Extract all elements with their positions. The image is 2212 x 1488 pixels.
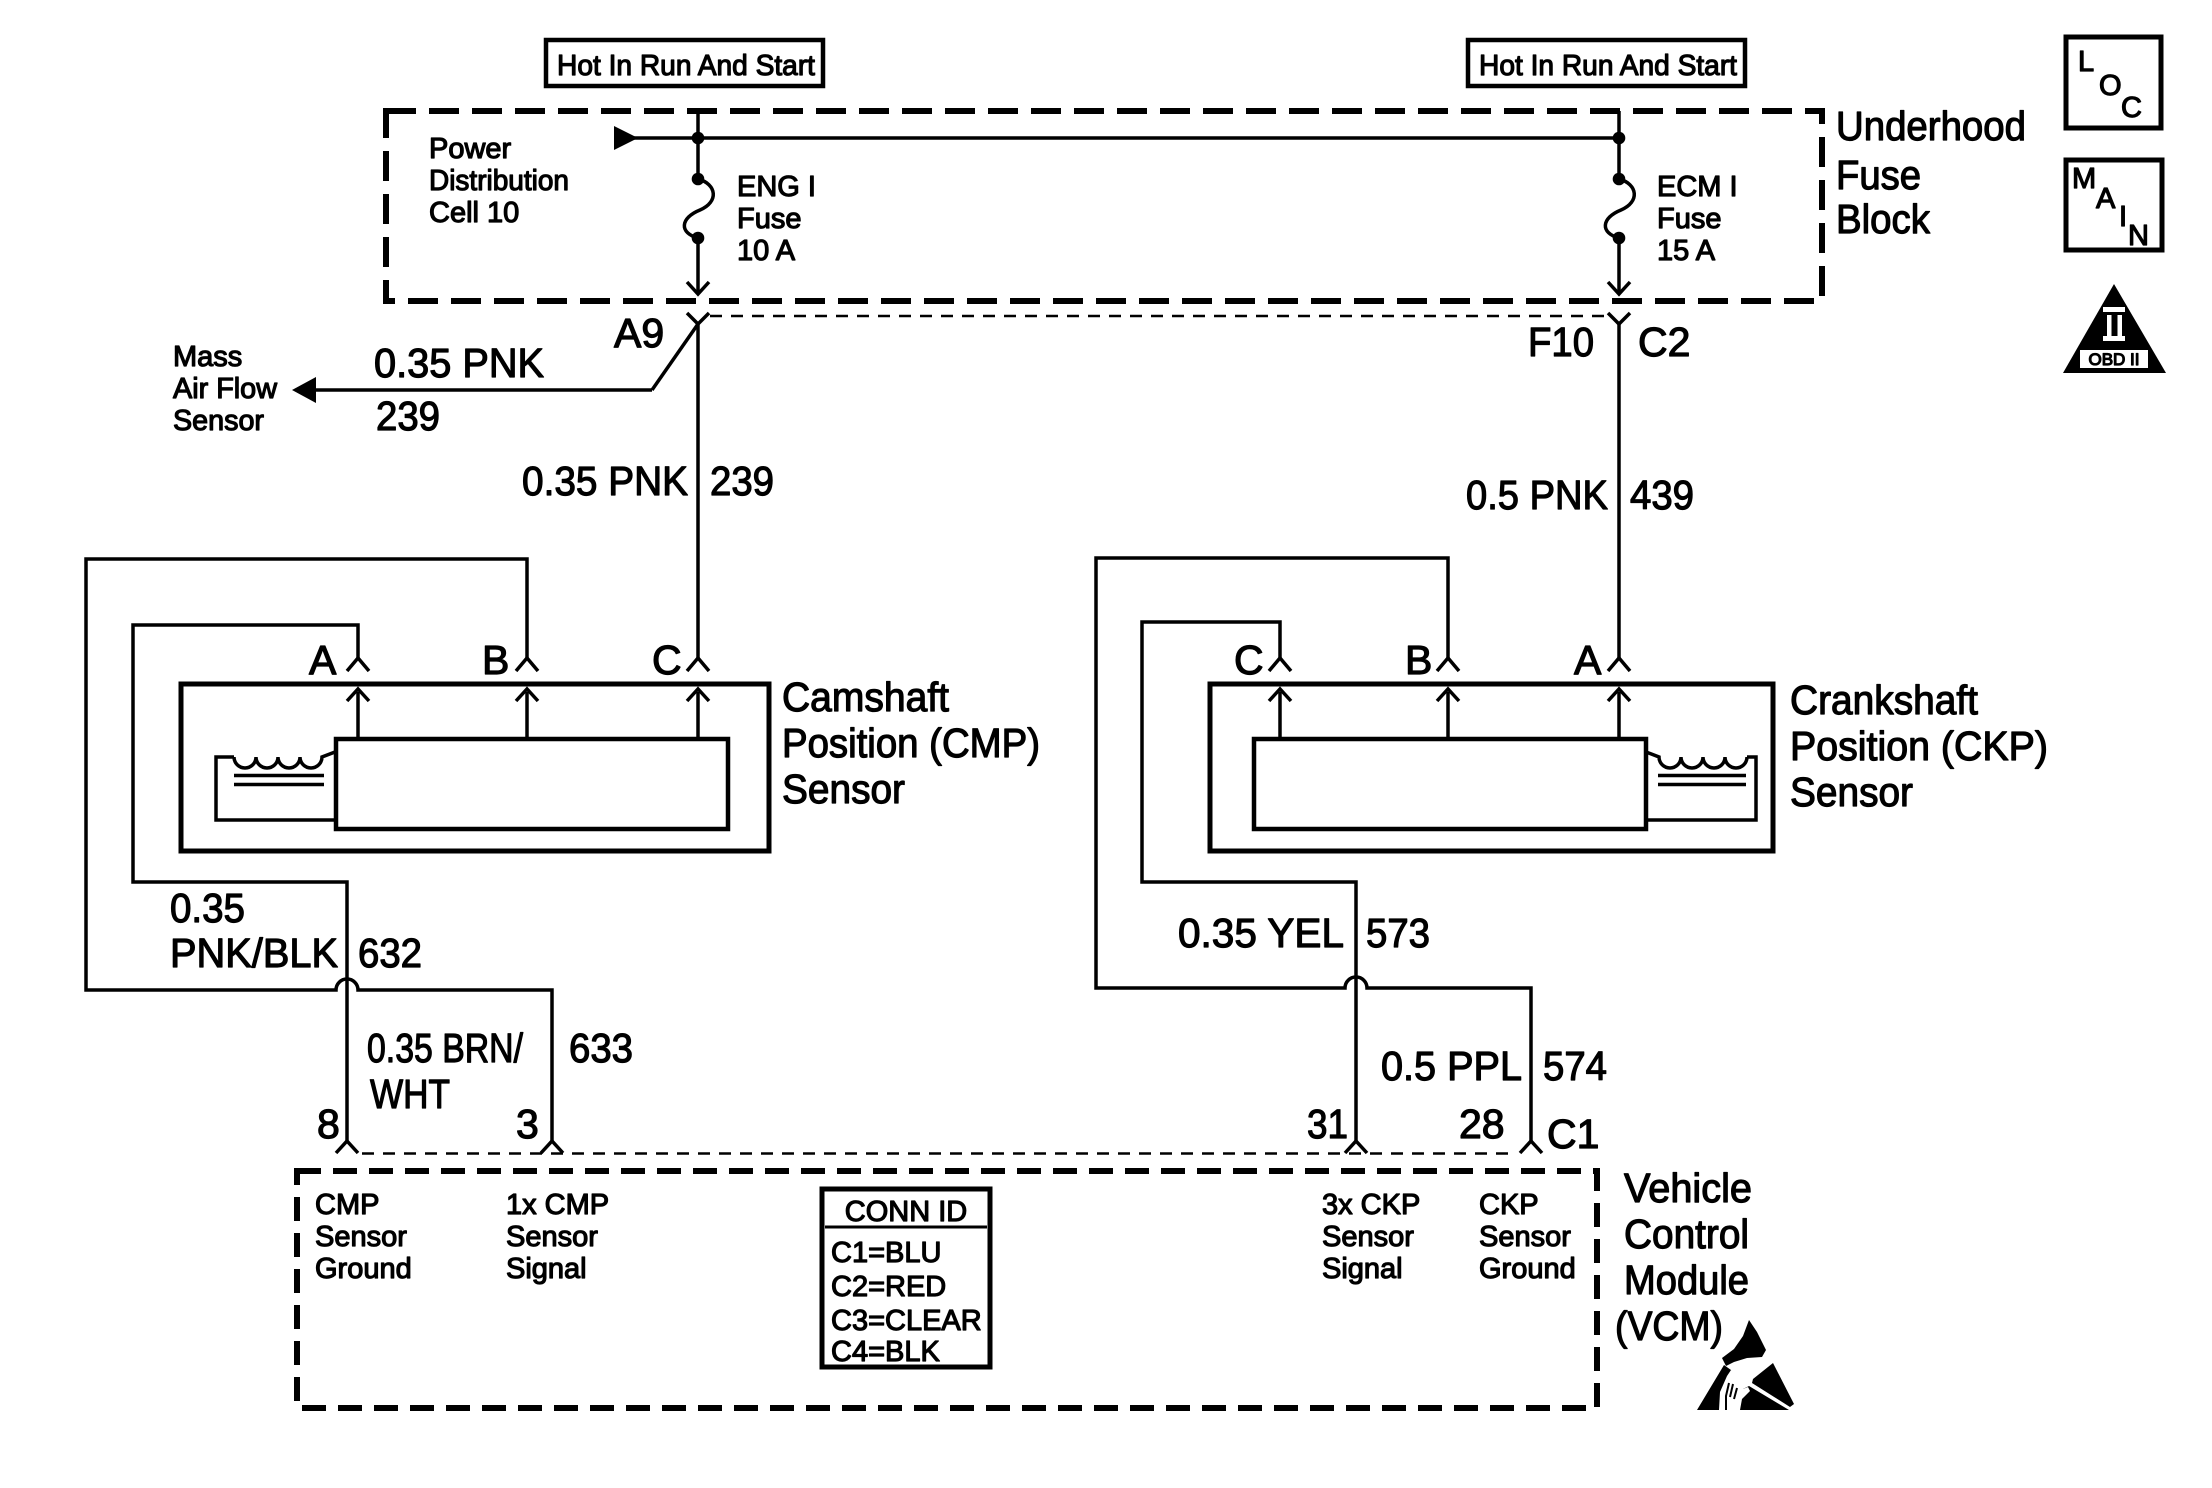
svg-text:B: B <box>1405 637 1432 683</box>
svg-text:Sensor: Sensor <box>506 1221 598 1253</box>
svg-text:Fuse: Fuse <box>1836 152 1921 198</box>
wire CKP pin B to VCM pin 28 run (circuit 574) <box>1096 558 1531 1141</box>
CMP sensor coil element <box>216 752 335 820</box>
label Vehicle Control Module (VCM) <box>1615 1165 1752 1349</box>
svg-text:0.35 PNK: 0.35 PNK <box>522 458 688 504</box>
svg-text:Sensor: Sensor <box>315 1221 407 1253</box>
svg-text:ECM I: ECM I <box>1657 171 1738 203</box>
CKP sensor inner body box <box>1254 739 1646 829</box>
svg-text:C: C <box>2121 92 2142 124</box>
label CMP Sensor Ground <box>315 1189 412 1285</box>
wire main power bus horizontal <box>633 136 1619 140</box>
CKP sensor coil element <box>1646 752 1756 820</box>
svg-text:Position (CKP): Position (CKP) <box>1790 723 2048 769</box>
svg-text:O: O <box>2099 70 2122 102</box>
svg-text:Ground: Ground <box>315 1253 412 1285</box>
svg-text:F10: F10 <box>1528 319 1594 365</box>
svg-text:WHT: WHT <box>370 1071 450 1117</box>
svg-text:Crankshaft: Crankshaft <box>1790 677 1979 723</box>
connector fork CMP pin B <box>516 658 538 671</box>
arrowhead to Mass Air Flow Sensor <box>292 377 316 403</box>
svg-text:Power: Power <box>429 133 512 165</box>
svg-text:3x CKP: 3x CKP <box>1322 1189 1420 1221</box>
svg-text:(VCM): (VCM) <box>1615 1303 1723 1349</box>
svg-text:0.5 PNK: 0.5 PNK <box>1466 472 1608 518</box>
arrow CKP internal pin A <box>1608 689 1630 739</box>
svg-text:B: B <box>482 637 509 683</box>
svg-text:Distribution: Distribution <box>429 165 569 197</box>
svg-text:ENG I: ENG I <box>737 171 816 203</box>
svg-text:Camshaft: Camshaft <box>782 674 950 720</box>
label Mass Air Flow Sensor <box>173 341 278 437</box>
label 3x CKP Sensor Signal <box>1322 1189 1420 1285</box>
label 1x CMP Sensor Signal <box>506 1189 609 1285</box>
label 0.35 PNK/BLK 632 <box>170 885 422 976</box>
svg-text:10 A: 10 A <box>737 235 796 267</box>
svg-text:573: 573 <box>1366 910 1430 956</box>
svg-text:A: A <box>309 637 337 683</box>
svg-text:239: 239 <box>710 458 774 504</box>
connector fork VCM pin 31 <box>1345 1141 1367 1153</box>
svg-text:31: 31 <box>1307 1101 1348 1147</box>
wire ECM I fuse drop from top border <box>1617 111 1621 173</box>
svg-text:Signal: Signal <box>506 1253 587 1285</box>
svg-text:A9: A9 <box>614 310 664 356</box>
label box "Hot In Run And Start" (left) <box>546 40 823 86</box>
svg-text:Block: Block <box>1836 196 1930 242</box>
label 0.5 PPL 574 <box>1381 1043 1607 1089</box>
svg-text:574: 574 <box>1543 1043 1607 1089</box>
label Underhood Fuse Block <box>1836 103 2026 242</box>
svg-text:Vehicle: Vehicle <box>1624 1165 1752 1211</box>
svg-text:Sensor: Sensor <box>173 405 264 437</box>
wire CMP pin A to VCM pin 8 run (circuit 632) <box>133 625 358 1141</box>
label 0.35 BRN/WHT 633 <box>367 1025 633 1117</box>
svg-text:1x CMP: 1x CMP <box>506 1189 609 1221</box>
connector fork VCM pin 28 <box>1520 1141 1542 1153</box>
junction dot left <box>692 132 705 145</box>
svg-text:0.35: 0.35 <box>170 885 245 931</box>
svg-text:8: 8 <box>317 1101 340 1147</box>
symbol LOC box <box>2066 37 2161 128</box>
arrow CKP internal pin B <box>1437 689 1459 739</box>
arrow CKP internal pin C <box>1269 689 1291 739</box>
label 0.35 PNK 239 (mid wire) <box>522 458 774 504</box>
svg-text:A: A <box>1574 637 1602 683</box>
arrow CMP internal pin C <box>687 689 709 739</box>
svg-text:C2=RED: C2=RED <box>831 1271 946 1303</box>
wire branch to Mass Air Flow Sensor <box>316 324 698 390</box>
svg-text:Hot In Run And Start: Hot In Run And Start <box>557 50 815 82</box>
svg-text:C: C <box>1234 637 1264 683</box>
connector fork F10/C2 <box>1608 313 1630 324</box>
wire below ECM I fuse with exit chevron <box>1608 242 1630 294</box>
label box "Hot In Run And Start" (right) <box>1468 40 1745 86</box>
label 0.35 YEL 573 <box>1178 910 1430 956</box>
svg-text:Hot In Run And Start: Hot In Run And Start <box>1479 50 1737 82</box>
connector C1 thin dashed line <box>362 1152 1516 1155</box>
svg-text:Underhood: Underhood <box>1836 103 2026 149</box>
symbol ESD warning (electrostatic discharge) <box>1697 1320 1794 1410</box>
Underhood Fuse Block dashed enclosure <box>386 111 1822 301</box>
CONN ID table <box>822 1189 990 1367</box>
svg-text:PNK/BLK: PNK/BLK <box>170 930 338 976</box>
svg-text:A: A <box>2096 183 2116 215</box>
wire CMP pin B to VCM pin 3 run (circuit 633) <box>86 559 552 1141</box>
svg-text:Cell 10: Cell 10 <box>429 197 519 229</box>
svg-text:C: C <box>652 637 682 683</box>
connector fork CMP pin C <box>687 658 709 671</box>
connector C2 thin dashed line <box>710 315 1604 318</box>
label ECM I Fuse 15 A <box>1657 171 1738 267</box>
svg-text:N: N <box>2128 220 2149 252</box>
CKP sensor outer box <box>1210 684 1773 851</box>
label ENG I Fuse 10 A <box>737 171 816 267</box>
svg-text:633: 633 <box>569 1025 633 1071</box>
wire 239 PNK vertical (fuse to CMP pin C) <box>696 324 700 658</box>
svg-text:Fuse: Fuse <box>737 203 801 235</box>
svg-text:Sensor: Sensor <box>782 766 905 812</box>
svg-text:L: L <box>2078 46 2094 78</box>
svg-text:0.35 PNK: 0.35 PNK <box>374 340 544 386</box>
svg-text:Module: Module <box>1624 1257 1749 1303</box>
svg-text:15 A: 15 A <box>1657 235 1716 267</box>
svg-text:Fuse: Fuse <box>1657 203 1721 235</box>
label Power Distribution Cell 10 <box>429 133 569 229</box>
svg-text:Signal: Signal <box>1322 1253 1403 1285</box>
svg-text:CKP: CKP <box>1479 1189 1539 1221</box>
label Camshaft Position (CMP) Sensor <box>782 674 1040 812</box>
CMP sensor outer box <box>181 684 769 851</box>
wire ENG I fuse drop from top border <box>696 111 700 173</box>
svg-text:CMP: CMP <box>315 1189 379 1221</box>
connector fork VCM pin 3 <box>541 1141 563 1153</box>
svg-text:0.5 PPL: 0.5 PPL <box>1381 1043 1522 1089</box>
wire below ENG I fuse with exit chevron <box>687 242 709 294</box>
svg-text:C3=CLEAR: C3=CLEAR <box>831 1305 982 1337</box>
arrow CMP internal pin A <box>347 689 369 739</box>
fuse ENG I symbol <box>684 173 713 245</box>
svg-text:C1=BLU: C1=BLU <box>831 1237 941 1269</box>
svg-text:Sensor: Sensor <box>1790 769 1913 815</box>
connector fork VCM pin 8 <box>336 1141 358 1153</box>
svg-text:632: 632 <box>358 930 422 976</box>
svg-text:439: 439 <box>1630 472 1694 518</box>
svg-text:Ground: Ground <box>1479 1253 1576 1285</box>
Vehicle Control Module dashed enclosure <box>297 1171 1597 1408</box>
connector fork CMP pin A <box>347 658 369 671</box>
svg-text:28: 28 <box>1459 1101 1505 1147</box>
connector fork CKP pin B <box>1437 658 1459 671</box>
svg-text:Sensor: Sensor <box>1322 1221 1414 1253</box>
svg-text:3: 3 <box>516 1101 539 1147</box>
svg-text:C2: C2 <box>1638 319 1690 365</box>
svg-text:C1: C1 <box>1547 1111 1599 1157</box>
connector fork CKP pin A <box>1608 658 1630 671</box>
svg-text:CONN ID: CONN ID <box>845 1196 967 1228</box>
junction dot right <box>1613 132 1626 145</box>
label 0.5 PNK 439 (mid wire) <box>1466 472 1694 518</box>
arrow feed triangle (power feed) <box>614 126 638 150</box>
symbol OBD II triangle <box>2063 284 2166 373</box>
CMP sensor inner body box <box>336 739 728 829</box>
svg-text:Mass: Mass <box>173 341 242 373</box>
svg-text:C4=BLK: C4=BLK <box>831 1336 940 1368</box>
wire 439 PNK vertical (fuse to CKP pin A) <box>1617 324 1621 658</box>
svg-text:Sensor: Sensor <box>1479 1221 1571 1253</box>
wire CKP pin C to VCM pin 31 run (circuit 573) <box>1142 622 1356 1141</box>
svg-text:OBD II: OBD II <box>2088 350 2139 369</box>
connector fork A9 <box>687 313 709 324</box>
svg-text:Position (CMP): Position (CMP) <box>782 720 1040 766</box>
svg-text:0.35 YEL: 0.35 YEL <box>1178 910 1344 956</box>
svg-text:M: M <box>2072 163 2096 195</box>
connector fork CKP pin C <box>1269 658 1291 671</box>
symbol MAIN box <box>2066 160 2162 250</box>
svg-text:0.35 BRN/: 0.35 BRN/ <box>367 1025 523 1071</box>
svg-text:Control: Control <box>1624 1211 1749 1257</box>
arrow CMP internal pin B <box>516 689 538 739</box>
label CKP Sensor Ground <box>1479 1189 1576 1285</box>
svg-text:239: 239 <box>376 393 440 439</box>
fuse ECM I symbol <box>1605 173 1634 245</box>
label Crankshaft Position (CKP) Sensor <box>1790 677 2048 815</box>
svg-text:Air Flow: Air Flow <box>173 373 278 405</box>
svg-text:I: I <box>2119 201 2127 233</box>
